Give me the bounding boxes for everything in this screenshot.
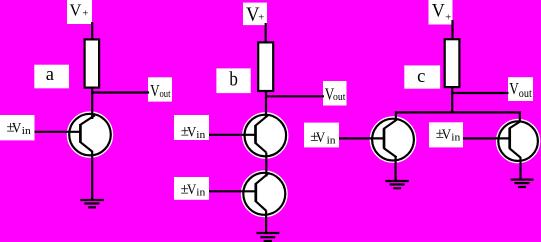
wire resistor to rail (c) [451,87,453,114]
svg-text:in: in [451,132,461,143]
svg-text:V: V [432,1,445,22]
svg-text:out: out [160,89,171,100]
resistor (a) [85,39,100,87]
svg-text:V: V [316,130,326,146]
node vout label (a) [148,77,172,101]
wire collector rail (c) [396,112,520,122]
transistor Q1 body [69,114,111,156]
wire emitter to ground (c left) [395,156,397,181]
wire emitter to ground (a) [91,151,93,200]
svg-text:out: out [519,86,533,100]
svg-text:V: V [442,127,452,143]
label b [216,68,250,93]
resistor (c) [445,39,460,87]
transistor Q2 body [244,115,286,157]
svg-text:+: + [82,8,88,19]
transistor Q5 bar and arms [509,121,521,158]
node vout label (c) [508,77,533,101]
transistor Q5 body [498,121,538,161]
ground (c left) [385,181,409,188]
wire base Q3 [209,190,256,192]
wire V+ to resistor (a) [91,22,93,41]
svg-text:+: + [445,13,451,24]
transistor Q4 body [372,119,414,161]
transistor Q1 bar and arms [80,115,95,151]
transistor Q3 bar and arms [255,173,268,211]
node ±vin label (b upper) [174,115,209,141]
wire emitter to ground (b) [265,211,267,234]
node ±vin label (c left) [304,123,339,148]
svg-text:in: in [196,187,206,198]
node V+ label (c) [429,0,453,25]
svg-text:c: c [417,67,425,87]
node ±vin label (b lower) [174,177,209,200]
label c [404,65,440,88]
wire emitter to ground (c right) [519,157,521,179]
wire resistor to collector Q2 [265,91,267,118]
wire V+ to resistor (c) [451,20,453,40]
wire base Q4 [339,137,385,139]
svg-text:V: V [70,0,82,19]
svg-text:out: out [333,92,346,103]
svg-text:+: + [258,12,264,23]
svg-text:V: V [187,124,197,140]
wire node to vout (c) [451,92,508,94]
svg-text:V: V [509,79,519,98]
transistor Q2 bar and arms [255,115,268,153]
svg-text:V: V [12,120,22,136]
wire Q2 emitter to Q3 collector [265,153,267,177]
svg-text:V: V [187,182,197,198]
wire base Q5 [463,137,510,139]
wire base (a) [35,131,82,133]
resistor (b) [258,42,273,91]
ground (b) [257,233,280,241]
node ±vin label (c mid) [429,122,463,147]
svg-text:in: in [196,130,206,141]
node ±vin label (a) [0,115,35,140]
wire node to vout (b) [265,95,324,97]
ground (c right) [510,180,533,187]
label a [34,65,69,89]
svg-text:b: b [229,69,238,91]
wire resistor to collector Q1 [91,87,93,119]
svg-text:in: in [327,135,337,146]
transistor Q3 body [243,173,285,215]
svg-text:a: a [46,65,54,85]
node V+ label (a) [67,0,92,24]
node V+ label (b) [243,3,267,26]
wire base Q2 [209,134,256,136]
wire node to vout (a) [91,91,149,93]
wire V+ to resistor (b) [265,23,267,44]
node vout label (b) [323,81,347,106]
ground (a) [80,200,104,207]
transistor Q4 bar and arms [384,120,397,158]
svg-text:in: in [22,126,32,137]
